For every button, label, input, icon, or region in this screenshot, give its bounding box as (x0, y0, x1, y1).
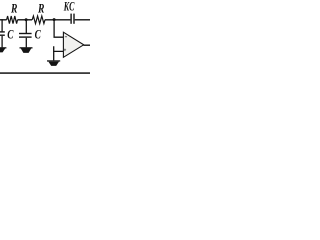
ground under C1 (0, 47, 6, 48)
wire: non-inverting input to ground drop (54, 46, 64, 51)
wire: C1 to ground (1, 36, 3, 48)
wire: input node down to C1 (1, 19, 3, 31)
wire: node A down to C2 (25, 20, 27, 33)
svg-text:C: C (35, 27, 41, 42)
bottom rail wire (0, 72, 90, 74)
ground at op-amp non-inverting input (47, 60, 60, 61)
svg-text:R: R (37, 1, 44, 16)
wire: op-amp output (84, 44, 91, 46)
node A junction dot (25, 18, 28, 21)
node B junction dot (53, 18, 56, 21)
op-amp U1 (63, 32, 83, 57)
wire: KC to right edge (75, 19, 90, 21)
resistor R1 (7, 16, 18, 24)
wire: C2 to ground (25, 38, 27, 48)
capacitor KC right plate (73, 14, 74, 24)
resistor R2 (32, 16, 45, 24)
wire: input lead into R1 (0, 19, 7, 21)
wire: drop to ground (53, 51, 55, 60)
wire: R2 to node B (45, 19, 71, 21)
capacitor C1 bottom plate (0, 35, 5, 36)
capacitor C1 top plate (0, 31, 5, 32)
svg-text:KC: KC (63, 0, 74, 14)
ground under C2 (20, 47, 33, 48)
op-amp plus sign (64, 48, 66, 51)
wire: node B down to inverting input (54, 20, 63, 38)
capacitor KC left plate (70, 14, 71, 24)
capacitor C2 bottom plate (19, 36, 32, 37)
op-amp minus sign (65, 35, 67, 38)
svg-text:C: C (7, 27, 13, 42)
wire: R1 to R2 (18, 19, 33, 21)
capacitor C2 top plate (19, 33, 32, 34)
svg-text:R: R (10, 1, 17, 16)
